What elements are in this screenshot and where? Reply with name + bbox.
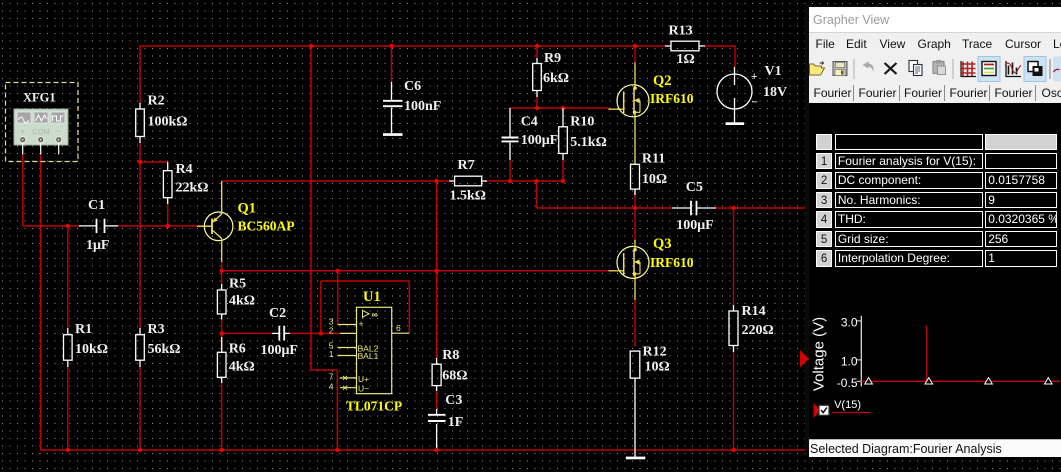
wire C6 drop [391,45,393,82]
svg-text:100μF: 100μF [521,133,559,148]
toolbar [809,54,1061,85]
spectrum spike [926,326,928,382]
wire top +V rail y=46 [140,45,665,47]
resistor R13 [665,24,705,68]
resistor R12 [630,345,670,458]
wire V1 top drop [734,45,736,67]
data point triangles [865,378,1052,384]
svg-text:R12: R12 [643,345,667,360]
save icon [833,62,847,76]
delete X icon [885,63,897,74]
wire R5 bottom to C2 node [221,320,223,334]
svg-text:TL071CP: TL071CP [346,399,402,414]
ground (R12 / main rail) [626,457,646,460]
svg-text:−: − [56,126,61,136]
wire R2 bottom to node [139,143,141,162]
wire C2 right to U1 pin2 [290,332,340,334]
sep [952,59,954,79]
svg-text:C2: C2 [269,306,286,321]
svg-text:4kΩ: 4kΩ [229,359,255,374]
svg-text:Voltage (V): Voltage (V) [811,317,828,391]
capacitor C3 [428,393,463,430]
wire Q2 source to R11 (yellow lead) [634,117,636,165]
wire R11 bottom to rail [634,189,636,208]
copy icon [909,61,922,76]
wire C4/R10 top rail y=108 [510,107,610,109]
U1 pin 2 (-) [340,332,357,334]
svg-text:+: + [20,127,25,137]
wire C3 bottom to rail [436,424,438,450]
svg-text:U1: U1 [363,289,381,305]
svg-text:+: + [359,319,364,329]
overlap icon (selected) [1024,57,1046,82]
svg-text:1μF: 1μF [86,238,110,253]
wire R8 drop from R7 node [436,181,438,358]
wire feedback loop [321,280,409,282]
resistor R5 [217,277,255,320]
title bar [809,7,1061,32]
transistor Q3 IRF610 (NMOS) [609,236,694,278]
svg-text:220Ω: 220Ω [742,323,774,338]
legend [814,403,821,418]
svg-text:R7: R7 [458,158,475,173]
svg-text:7: 7 [329,372,334,382]
U1 pin 6 output [392,332,410,334]
svg-text:R1: R1 [75,322,92,337]
svg-text:1: 1 [329,349,334,359]
wire R7 right to C4 net [487,180,510,182]
U1 pin 3 (+) [338,324,357,326]
svg-text:56kΩ: 56kΩ [148,342,181,357]
wire ground bottom rail [40,449,806,451]
wire R2node down to R3 [139,162,141,328]
wire C4/R10 bottom rail [510,180,563,182]
svg-text:10Ω: 10Ω [642,172,667,187]
svg-text:100μF: 100μF [261,343,299,358]
wire U1 pin3 drop from emitter row [337,271,339,325]
paste icon (disabled) [933,60,946,75]
svg-text:C3: C3 [445,393,462,408]
svg-text:C1: C1 [88,198,105,213]
wire R14 bottom [733,352,735,450]
sep [853,59,855,79]
svg-text:R8: R8 [442,348,459,363]
svg-text:1Ω: 1Ω [677,52,695,67]
svg-text:6kΩ: 6kΩ [543,71,569,86]
svg-text:R10: R10 [570,115,594,130]
svg-text:R5: R5 [229,277,246,292]
svg-text:COM: COM [32,127,50,136]
y axis [860,316,862,387]
wire C2 left [222,332,272,334]
wire node(140,162) to R4 [140,161,168,163]
wire U1 supply drop x=311 [310,45,312,370]
wire base row C1 to Q1 [118,225,197,227]
svg-text:BAL1: BAL1 [358,351,379,361]
svg-text:1.0: 1.0 [841,354,858,368]
svg-text:R13: R13 [669,24,693,39]
svg-text:5.1kΩ: 5.1kΩ [570,135,607,150]
waveform icon [1005,61,1021,77]
wire Q1 collector row to R7 [222,180,449,182]
svg-text:-0.5: -0.5 [837,376,858,390]
svg-text:−: − [752,97,758,109]
wire R1 bottom [67,367,69,450]
svg-text:Q1: Q1 [238,201,257,217]
svg-text:4kΩ: 4kΩ [229,294,255,309]
svg-text:Q3: Q3 [653,236,672,252]
svg-text:100μF: 100μF [676,218,714,233]
sep [1049,59,1051,79]
wire Q1 emitter down [221,262,223,271]
svg-text:10Ω: 10Ω [645,360,670,375]
wire R9 top [536,45,538,58]
ground (C6) [383,133,403,136]
wire R14 top drop [733,208,735,305]
wire R6 bottom [221,383,223,450]
Fourier chart [809,299,1060,429]
svg-text:IRF610: IRF610 [650,255,694,270]
resistor R3 [136,322,181,367]
capacitor C4 [502,108,559,160]
svg-text:R11: R11 [642,152,665,167]
svg-text:C5: C5 [686,180,703,195]
function generator XFG1 [6,83,79,162]
transistor Q1 BC560AP (PNP BJT) [197,181,295,262]
node junction dots [309,44,313,48]
wire XFG COM down to ground rail [40,154,42,450]
wire Q2 drain [634,45,636,63]
partial icon [1053,57,1061,82]
capacitor C5 [672,180,716,233]
svg-text:∞: ∞ [372,310,379,320]
svg-text:R14: R14 [742,304,766,319]
svg-text:V1: V1 [765,64,782,79]
resistor R11 [631,152,668,196]
svg-text:C4: C4 [521,115,538,130]
svg-text:V(15): V(15) [834,399,861,411]
svg-text:XFG1: XFG1 [23,91,56,105]
ground (V1) [726,122,745,125]
svg-text:1.5kΩ: 1.5kΩ [450,189,487,204]
resistor R2 [136,94,188,144]
U1 pin 1 BAL1 [337,355,356,357]
svg-text:+: + [751,71,757,83]
svg-text:C6: C6 [404,79,421,94]
svg-text:100nF: 100nF [404,99,441,114]
svg-text:22kΩ: 22kΩ [176,181,209,196]
transistor Q2 IRF610 (NMOS) [609,63,694,117]
red baseline [861,380,1060,382]
svg-text:68Ω: 68Ω [442,369,467,384]
wire R4 bottom to base row [167,204,169,226]
dc source V1 [717,64,787,122]
wire R6 top [221,333,223,350]
svg-text:6: 6 [396,323,401,333]
properties icon (selected) [978,57,1000,82]
wire Q3 source to R12 [634,278,636,300]
svg-text:10kΩ: 10kΩ [75,342,108,357]
content black area [809,103,1061,439]
menu bar [809,32,1061,55]
resistor R6 [217,337,254,383]
svg-text:18V: 18V [763,85,787,100]
svg-text:4: 4 [329,382,334,392]
Grapher View window [805,5,1061,456]
capacitor C6 [383,79,441,133]
grid icon [961,61,977,77]
svg-text:IRF610: IRF610 [650,91,694,106]
svg-text:3.0: 3.0 [841,316,858,330]
wire R1 top [67,226,69,328]
open icon [810,62,825,76]
svg-text:Q2: Q2 [653,73,672,89]
Fourier results table [816,134,833,150]
resistor R14 [729,304,774,352]
resistor R7 [449,158,487,204]
U1 pin 7 U+ [340,377,357,379]
svg-text:1F: 1F [448,415,464,430]
resistor R10 [559,108,607,160]
wire R2 top drop [139,45,141,103]
wire branch down from R7 node [536,181,538,208]
U1 pin 4 U- [340,387,357,389]
wire R9 bottom [536,97,538,108]
resistor R8 [432,348,467,391]
wire output rail y=208 [537,207,673,209]
resistor R1 [64,322,109,367]
status bar [809,439,1061,458]
wire emitter row y=270.8 Q1 to Q3 gate [222,270,609,272]
resistor R9 [533,51,569,97]
wire R8 bottom to C3 [436,386,438,409]
capacitor C1 [79,198,118,253]
svg-text:R4: R4 [176,162,193,177]
capacitor C2 [261,306,299,358]
wire XFG+ down [22,154,24,226]
svg-text:2: 2 [329,326,334,336]
tab strip [809,84,1061,103]
op-amp U1 TL071CP [346,289,402,414]
undo icon (disabled) [863,62,874,74]
svg-text:BC560AP: BC560AP [238,219,295,234]
svg-text:U~: U~ [358,383,369,393]
svg-text:R3: R3 [148,322,165,337]
resistor R4 [163,162,208,204]
svg-text:R9: R9 [544,51,561,66]
wire Q3 drain from rail [634,208,636,241]
red selection arrow at window edge [799,350,810,368]
wire R3 bottom to ground rail [139,367,141,450]
svg-text:100kΩ: 100kΩ [148,115,188,130]
U1 pin 5 BAL2 [337,347,356,349]
svg-text:R6: R6 [229,341,246,356]
wire R5 top [221,271,223,284]
svg-text:R2: R2 [148,94,165,109]
